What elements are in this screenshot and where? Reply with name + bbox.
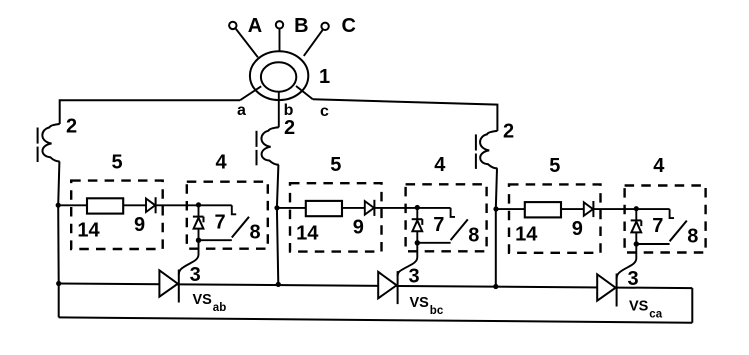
transformer 1 (inner winding circle) <box>261 62 296 91</box>
wire right vertical to bottom rail <box>691 288 693 323</box>
node phase c / rail junction <box>493 284 498 289</box>
svg-text:4: 4 <box>434 154 446 176</box>
wire thyristor gate (a) <box>179 240 199 275</box>
svg-text:9: 9 <box>353 217 364 239</box>
inductor 2 (phase c) core bar <box>475 134 477 169</box>
zener diode 7 (b) <box>412 208 423 243</box>
label 4 (b) <box>434 154 446 176</box>
label 8 (a) <box>249 222 260 244</box>
svg-text:1: 1 <box>319 66 330 88</box>
svg-text:VS: VS <box>410 295 430 311</box>
label 5 (b) <box>330 154 341 176</box>
wire phase b vertical <box>277 165 279 285</box>
wire b-lead vertical from transformer <box>278 91 280 127</box>
wire thyristor rail <box>59 284 693 289</box>
switch 8 fixed contact (c) <box>670 209 674 218</box>
svg-text:3: 3 <box>190 264 201 286</box>
svg-text:5: 5 <box>330 154 341 176</box>
label 2 (inductor phase a) <box>66 116 77 138</box>
svg-text:2: 2 <box>284 117 295 139</box>
svg-text:ab: ab <box>213 302 226 314</box>
label 7 (b) <box>433 214 444 236</box>
svg-text:8: 8 <box>687 226 698 248</box>
svg-text:14: 14 <box>77 220 100 242</box>
node phase b / rail junction <box>276 282 281 287</box>
switch 8 fixed contact (b) <box>451 208 455 217</box>
dashed block 5 (c) <box>509 184 601 252</box>
switch 8 blade (b) <box>451 219 468 240</box>
zener diode 7 (c) <box>631 209 642 244</box>
wire switch lower terminal (b) <box>417 242 450 244</box>
label 9 (c) <box>572 218 583 240</box>
svg-text:bc: bc <box>430 305 444 317</box>
label VSca <box>629 299 663 321</box>
inductor 2 (phase a) winding <box>42 124 59 162</box>
label 3 (a) <box>190 264 201 286</box>
resistor 14 (c) <box>525 202 561 217</box>
label 14 (a) <box>77 220 100 242</box>
label 4 (c) <box>653 155 665 177</box>
wire c-lead diagonal from transformer <box>296 86 313 99</box>
svg-text:8: 8 <box>468 224 479 246</box>
label 5 (a) <box>111 151 122 173</box>
wire thyristor gate (b) <box>398 243 418 276</box>
label VSbc <box>410 295 444 317</box>
wire switch lower terminal (c) <box>636 243 669 245</box>
label 7 (c) <box>652 215 663 237</box>
svg-text:a: a <box>237 102 246 119</box>
wire terminal B to transformer <box>279 29 281 52</box>
svg-text:7: 7 <box>652 215 663 237</box>
svg-text:5: 5 <box>111 151 122 173</box>
wire gate row horizontal (a) <box>58 204 232 206</box>
svg-text:c: c <box>320 103 329 120</box>
svg-text:2: 2 <box>66 116 77 138</box>
switch 8 blade (c) <box>670 221 687 242</box>
resistor 14 (b) <box>306 201 342 216</box>
svg-text:4: 4 <box>653 155 665 177</box>
svg-text:14: 14 <box>515 224 538 246</box>
wire gate row horizontal (c) <box>496 208 670 210</box>
wire phase c vertical <box>496 168 497 286</box>
diode 9 (a) <box>146 197 156 213</box>
dashed block 4 (b) <box>406 184 487 251</box>
label 1 (transformer) <box>319 66 330 88</box>
wire a-lead diagonal from transformer <box>240 86 261 100</box>
dashed block 5 (a) <box>71 181 163 249</box>
node phase tap (c) <box>493 206 498 211</box>
svg-text:3: 3 <box>408 265 419 287</box>
label c (phase) <box>320 103 329 120</box>
wire bottom rail <box>59 317 693 322</box>
svg-text:14: 14 <box>296 222 319 244</box>
node phase tap (b) <box>274 205 279 210</box>
node zener bottom (c) <box>634 241 639 246</box>
label 14 (b) <box>296 222 319 244</box>
diode 9 (b) <box>365 200 375 216</box>
svg-text:B: B <box>294 15 308 37</box>
terminal B circle <box>276 21 283 28</box>
wire gate row horizontal (b) <box>277 207 451 209</box>
label 14 (c) <box>515 224 538 246</box>
label A <box>248 15 262 37</box>
switch 8 blade (a) <box>232 217 249 238</box>
resistor 14 (a) <box>87 198 123 213</box>
label 9 (a) <box>134 214 145 236</box>
label C <box>341 15 355 37</box>
switch 8 fixed contact (a) <box>232 205 236 214</box>
wire terminal A to transformer <box>236 29 258 58</box>
inductor 2 (phase b) core bar <box>256 131 258 166</box>
node phase tap (a) <box>56 203 61 208</box>
node zener bottom (a) <box>196 238 201 243</box>
svg-text:7: 7 <box>433 214 444 236</box>
label 7 (a) <box>214 211 225 233</box>
node zener top (c) <box>634 206 639 211</box>
svg-text:VS: VS <box>629 299 649 315</box>
label 8 (c) <box>687 226 698 248</box>
dashed block 4 (a) <box>187 182 268 249</box>
label VSab <box>193 292 227 314</box>
diode 9 (c) <box>584 201 594 217</box>
wire phase a vertical <box>58 162 59 318</box>
zener diode 7 (a) <box>193 205 204 240</box>
svg-text:4: 4 <box>215 151 227 173</box>
inductor 2 (phase c) winding <box>480 131 497 169</box>
thyristor 3 VSab <box>159 270 178 303</box>
label 8 (b) <box>468 224 479 246</box>
node zener top (a) <box>196 202 201 207</box>
label 2 (inductor phase c) <box>503 121 514 143</box>
label 4 (a) <box>215 151 227 173</box>
dashed block 5 (b) <box>290 183 382 251</box>
wire top-right rail (c lead to right corner) <box>313 99 498 131</box>
label 3 (c) <box>627 268 638 290</box>
svg-text:9: 9 <box>134 214 145 236</box>
label b (phase) <box>284 102 294 119</box>
label B <box>294 15 308 37</box>
svg-text:A: A <box>248 15 262 37</box>
node phase a / rail junction <box>56 281 61 286</box>
wire terminal C to transformer <box>304 30 323 56</box>
svg-text:5: 5 <box>549 155 560 177</box>
node zener top (b) <box>415 205 420 210</box>
thyristor 3 VSbc <box>378 271 397 304</box>
svg-text:9: 9 <box>572 218 583 240</box>
inductor 2 (phase a) core bar <box>37 128 39 163</box>
svg-text:3: 3 <box>627 268 638 290</box>
terminal A circle <box>229 22 236 29</box>
label 9 (b) <box>353 217 364 239</box>
wire thyristor gate (c) <box>617 244 637 279</box>
wire switch lower terminal (a) <box>199 239 232 241</box>
svg-text:VS: VS <box>193 292 213 308</box>
label 3 (b) <box>408 265 419 287</box>
transformer 1 (outer winding circle) <box>250 51 308 100</box>
svg-text:C: C <box>341 15 355 37</box>
svg-text:2: 2 <box>503 121 514 143</box>
label 2 (inductor phase b) <box>284 117 295 139</box>
terminal C circle <box>321 23 328 30</box>
svg-text:ca: ca <box>649 309 662 321</box>
label 5 (c) <box>549 155 560 177</box>
label a (phase) <box>237 102 246 119</box>
svg-text:7: 7 <box>214 211 225 233</box>
node zener bottom (b) <box>415 240 420 245</box>
inductor 2 (phase b) winding <box>261 127 278 165</box>
thyristor 3 VSca <box>597 274 616 307</box>
wire top-left rail (a lead to left corner) <box>60 100 240 124</box>
svg-text:8: 8 <box>249 222 260 244</box>
dashed block 4 (c) <box>625 186 706 253</box>
